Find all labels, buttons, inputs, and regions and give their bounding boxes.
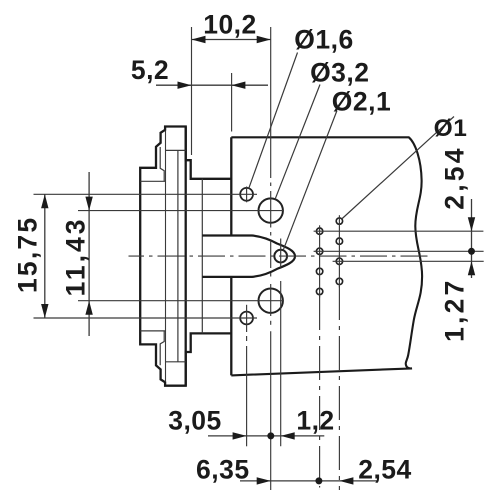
svg-text:10,2: 10,2 xyxy=(203,10,257,40)
svg-text:15,75: 15,75 xyxy=(13,216,43,293)
svg-text:2,54: 2,54 xyxy=(358,455,412,485)
svg-text:2,54: 2,54 xyxy=(440,145,470,209)
svg-text:Ø3,2: Ø3,2 xyxy=(310,58,369,88)
svg-text:5,2: 5,2 xyxy=(131,55,169,85)
svg-text:11,43: 11,43 xyxy=(60,216,90,296)
svg-text:Ø1: Ø1 xyxy=(434,115,468,142)
svg-text:1,27: 1,27 xyxy=(440,278,470,342)
svg-text:1,2: 1,2 xyxy=(296,406,334,436)
svg-text:6,35: 6,35 xyxy=(196,455,250,485)
svg-text:Ø1,6: Ø1,6 xyxy=(294,25,353,55)
svg-text:3,05: 3,05 xyxy=(168,406,222,436)
svg-text:Ø2,1: Ø2,1 xyxy=(332,87,391,117)
